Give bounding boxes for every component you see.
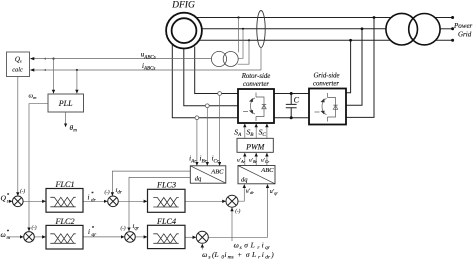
- svg-text:(-): (-): [20, 190, 25, 195]
- svg-text:u′qr: u′qr: [270, 189, 278, 196]
- svg-text:DFIG: DFIG: [171, 1, 195, 11]
- svg-text:u′Ar: u′Ar: [237, 158, 245, 164]
- svg-text:ωm: ωm: [29, 93, 38, 101]
- svg-text:(-): (-): [121, 227, 126, 232]
- svg-text:FLC2: FLC2: [54, 217, 74, 226]
- svg-text:θm: θm: [70, 123, 78, 134]
- svg-text:iCr: iCr: [212, 155, 220, 165]
- svg-text:Power: Power: [453, 22, 473, 30]
- svg-text:Q*s: Q*s: [1, 194, 10, 205]
- svg-text:ω*m: ω*m: [1, 230, 11, 241]
- svg-text:ωs(L0ims+σLridr): ωs(L0ims+σLridr): [202, 250, 274, 260]
- svg-text:iAr: iAr: [189, 155, 197, 165]
- svg-text:PLL: PLL: [58, 99, 73, 108]
- svg-text:Grid-side: Grid-side: [313, 73, 339, 80]
- svg-text:FLC4: FLC4: [156, 217, 176, 226]
- svg-text:converter: converter: [243, 81, 269, 88]
- svg-text:dq: dq: [195, 175, 202, 182]
- svg-text:i*qr: i*qr: [88, 227, 97, 238]
- svg-text:SC: SC: [259, 127, 267, 138]
- svg-text:SA: SA: [234, 127, 242, 138]
- svg-text:Qs: Qs: [15, 55, 22, 63]
- svg-text:(-): (-): [105, 191, 110, 196]
- svg-text:Grid: Grid: [458, 30, 472, 38]
- svg-text:u′Br: u′Br: [249, 158, 257, 164]
- svg-text:iqr: iqr: [133, 223, 139, 232]
- svg-text:u′Cr: u′Cr: [261, 158, 270, 164]
- svg-text:dq: dq: [241, 176, 248, 183]
- svg-text:iBr: iBr: [200, 155, 208, 165]
- svg-text:i*dr: i*dr: [88, 192, 97, 203]
- svg-text:calc: calc: [12, 67, 23, 74]
- svg-text:converter: converter: [313, 81, 339, 88]
- svg-text:FLC1: FLC1: [54, 180, 74, 189]
- svg-text:(-): (-): [235, 210, 240, 215]
- svg-text:ABC: ABC: [260, 167, 274, 174]
- svg-text:ABC: ABC: [210, 169, 224, 176]
- svg-text:iABCs: iABCs: [142, 62, 155, 72]
- svg-text:idr: idr: [116, 187, 122, 196]
- svg-text:(-): (-): [32, 226, 37, 231]
- svg-text:FLC3: FLC3: [156, 181, 176, 190]
- svg-text:C: C: [294, 96, 300, 105]
- svg-text:PWM: PWM: [245, 143, 266, 152]
- svg-text:u′dr: u′dr: [246, 189, 254, 196]
- svg-text:Rotor-side: Rotor-side: [241, 73, 271, 80]
- svg-text:SB: SB: [247, 127, 255, 138]
